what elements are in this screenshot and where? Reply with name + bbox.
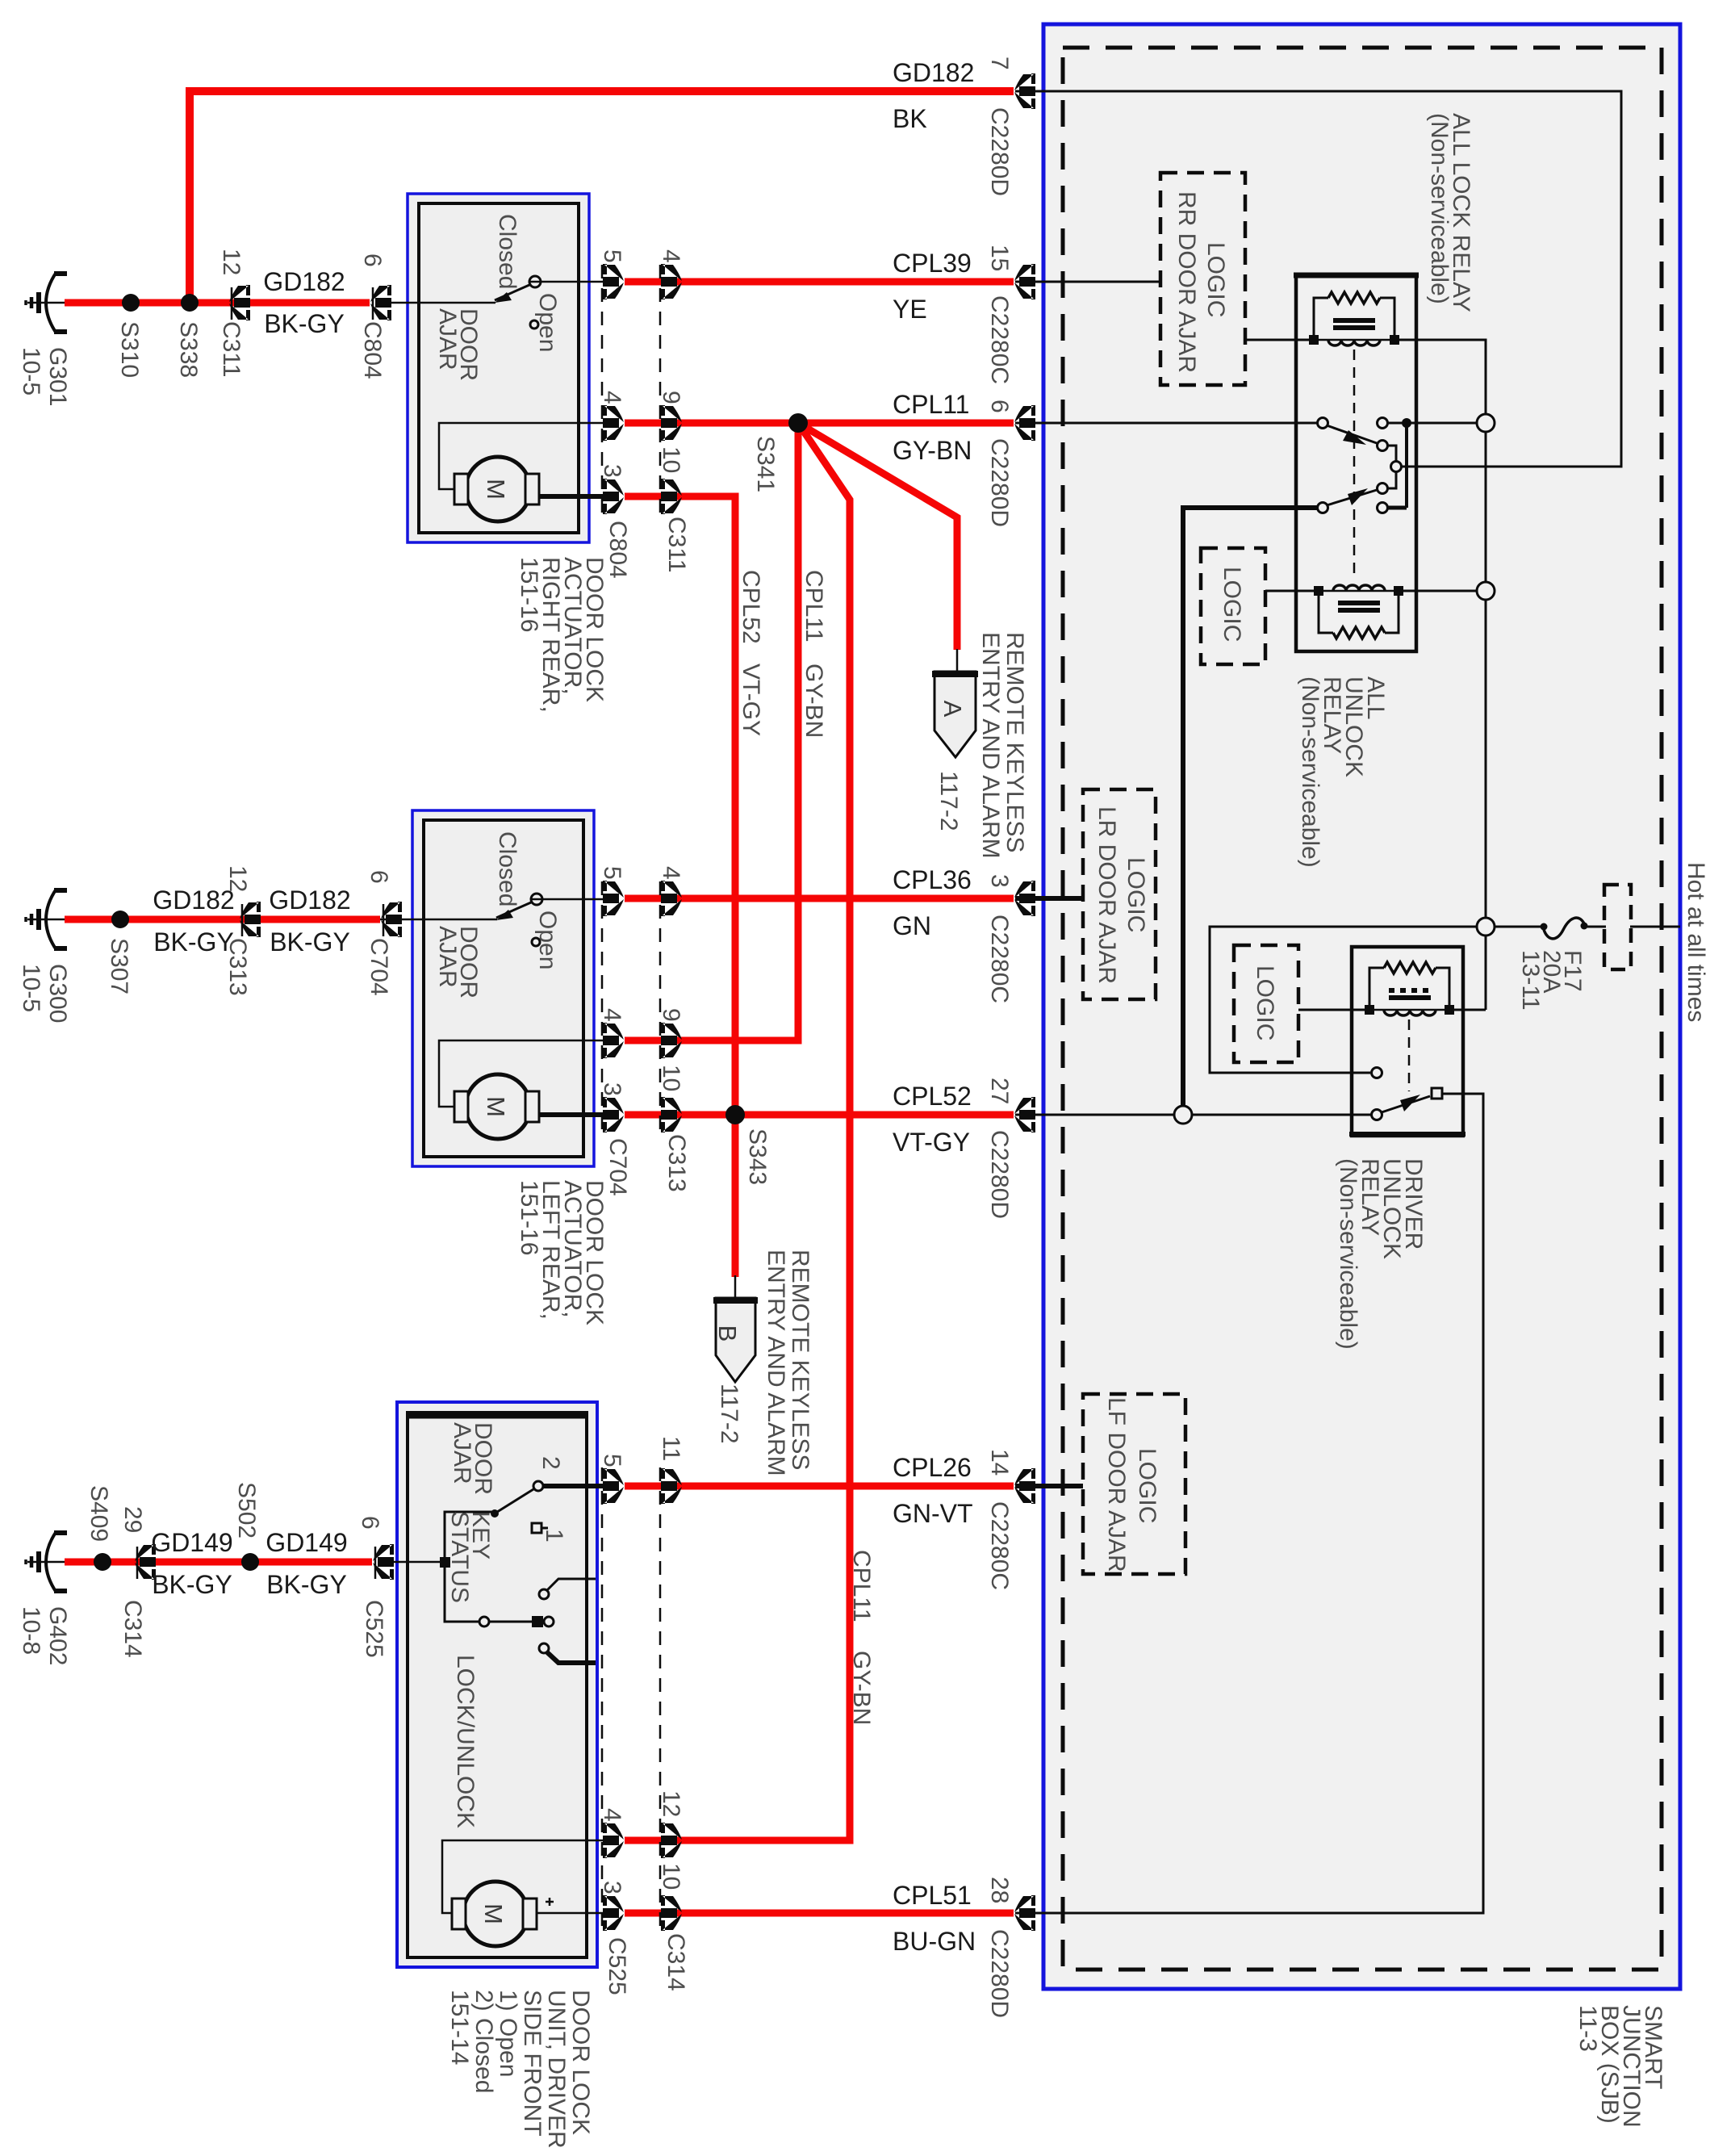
battery feed to driver-unlock NC contact <box>1210 927 1477 1073</box>
svg-text:4: 4 <box>658 249 684 263</box>
svg-text:BK-GY: BK-GY <box>270 927 350 957</box>
mechanical link dashed (driver unlock relay) <box>1408 1019 1411 1091</box>
svg-text:S307: S307 <box>106 938 132 994</box>
wire: pin27 to driver unlock common <box>1015 1114 1372 1116</box>
smart junction box (SJB) outline <box>1043 24 1680 1989</box>
LF motor M <box>463 1882 528 1946</box>
svg-text:Open: Open <box>534 911 561 969</box>
svg-text:GN-VT: GN-VT <box>893 1499 973 1528</box>
svg-text:151-16: 151-16 <box>516 557 542 632</box>
svg-text:C2280C: C2280C <box>986 1501 1013 1590</box>
svg-text:5: 5 <box>599 866 625 880</box>
wire: all-unlock coil right to battery bus <box>1399 590 1477 592</box>
C525 pin3 arrow <box>603 1895 624 1931</box>
connector arrows (right-pointing at component rows) <box>603 264 682 1931</box>
svg-text:S341: S341 <box>752 436 779 492</box>
C804 pin6 arrow <box>370 285 391 320</box>
svg-text:AJAR: AJAR <box>434 926 461 988</box>
svg-text:(Non-serviceable): (Non-serviceable) <box>1297 676 1323 868</box>
LF door ajar switch pin 1 contact <box>532 1523 541 1533</box>
svg-text:117-2: 117-2 <box>935 771 962 831</box>
KEY STATUS bracket <box>445 1512 495 1622</box>
splice S502 <box>241 1553 259 1571</box>
svg-text:S343: S343 <box>744 1128 771 1185</box>
svg-text:CPL11: CPL11 <box>893 390 969 419</box>
connector arrows (left-pointing at SJB edge and grounds) <box>135 73 1035 1931</box>
LF door ajar switch pin 2 contact <box>533 1481 543 1491</box>
C313 pin12 arrow <box>240 902 261 937</box>
wire CPL52 VT-GY: S343 to SJB pin 27 <box>735 1111 1014 1119</box>
LOGIC box (driver unlock relay) <box>1234 945 1298 1062</box>
svg-text:BK: BK <box>893 104 927 133</box>
svg-text:G300: G300 <box>44 964 71 1023</box>
relay contact vertical link E-F <box>1405 423 1408 508</box>
svg-text:C2280D: C2280D <box>986 438 1013 527</box>
svg-text:12: 12 <box>218 249 245 275</box>
svg-text:29: 29 <box>119 1506 146 1533</box>
svg-text:Closed: Closed <box>494 214 521 289</box>
wire CPL51 BU-GN: LF motor row to SJB pin 28 <box>625 1910 1014 1917</box>
svg-text:4: 4 <box>599 1808 625 1822</box>
C704 pin6 arrow <box>381 902 402 937</box>
svg-text:9: 9 <box>658 1008 684 1022</box>
wire CPL36 GN: LR switch row to SJB pin 3 <box>625 895 1014 902</box>
svg-text:CPL52: CPL52 <box>893 1082 972 1111</box>
svg-text:10-5: 10-5 <box>18 347 44 396</box>
C314 pin10 arrow <box>661 1895 682 1931</box>
wire: NO contact to pin 28 <box>1015 1094 1483 1913</box>
svg-text:S409: S409 <box>86 1485 112 1542</box>
svg-text:C525: C525 <box>604 1937 630 1995</box>
C311 pin12 arrow <box>229 285 250 320</box>
C704 pin5 arrow <box>603 881 624 916</box>
svg-text:GD149: GD149 <box>266 1528 347 1557</box>
door lock actuator left rear box <box>412 810 594 1166</box>
svg-text:CPL36: CPL36 <box>893 865 972 894</box>
driver unlock relay common contact <box>1372 1110 1382 1120</box>
svg-text:6: 6 <box>366 870 392 884</box>
relay contact arm A to B <box>1327 425 1377 443</box>
svg-text:Closed: Closed <box>494 831 521 906</box>
relay contact common A2 (to CPL52 bus) <box>1318 503 1328 513</box>
svg-text:(Non-serviceable): (Non-serviceable) <box>1335 1158 1361 1350</box>
svg-text:10-5: 10-5 <box>18 964 44 1012</box>
svg-text:CPL11: CPL11 <box>801 570 827 643</box>
relay contact B2 <box>1378 484 1388 494</box>
C2280C pin3 arrow <box>1014 881 1035 916</box>
C313 pin10 arrow <box>661 1097 682 1132</box>
svg-text:ENTRY AND ALARM: ENTRY AND ALARM <box>977 632 1004 859</box>
wire: all-lock coil right to battery bus <box>1394 340 1486 414</box>
RR motor circuit wires <box>439 423 611 489</box>
battery bus vertical inside SJB <box>1485 432 1487 582</box>
C525 pin4 arrow <box>603 1823 624 1858</box>
svg-text:BU-GN: BU-GN <box>893 1927 976 1956</box>
C313 pin9 arrow <box>661 1023 682 1058</box>
svg-text:12: 12 <box>224 865 251 892</box>
svg-text:C525: C525 <box>361 1600 387 1658</box>
C2280D pin27 arrow <box>1014 1097 1035 1132</box>
relay contact middle common C to pin7 feed <box>1387 446 1396 488</box>
svg-text:10: 10 <box>658 1065 684 1091</box>
ground G402 <box>26 1531 67 1593</box>
wire: LOGIC to driver-unlock coil <box>1298 1009 1369 1011</box>
svg-text:BK-GY: BK-GY <box>266 1570 347 1599</box>
wire CPL11 branch: S341 diagonal to LF feed vertical <box>625 423 850 1840</box>
splice S310 <box>122 294 140 312</box>
C311 pin9 arrow <box>661 405 682 441</box>
wire CPL52 VT-GY: RR motor row down to S343 and B flag <box>625 496 735 1277</box>
svg-text:C2280D: C2280D <box>986 1130 1013 1219</box>
svg-text:M: M <box>482 479 510 500</box>
svg-text:6: 6 <box>359 253 386 267</box>
C311 pin10 arrow <box>661 479 682 514</box>
connector dashed lines C704/C313 columns (LR) <box>601 881 604 1134</box>
LOGIC RR DOOR AJAR box <box>1160 173 1245 385</box>
door lock unit driver side front box <box>397 1402 597 1967</box>
svg-text:LF DOOR AJAR: LF DOOR AJAR <box>1103 1397 1130 1572</box>
LF door ajar switch arm <box>495 1489 533 1513</box>
wire GD182 BK: S338 up and right to SJB pin 7 <box>190 91 1014 303</box>
C2280D pin28 arrow <box>1014 1895 1035 1931</box>
C314 pin12 arrow <box>661 1823 682 1858</box>
relay contact common A (from pin6) <box>1318 418 1328 429</box>
svg-text:GD182: GD182 <box>263 267 345 296</box>
svg-text:CPL51: CPL51 <box>893 1881 972 1910</box>
svg-text:BK-GY: BK-GY <box>153 927 234 957</box>
svg-text:S338: S338 <box>175 321 202 378</box>
svg-text:LR DOOR AJAR: LR DOOR AJAR <box>1093 806 1120 984</box>
svg-text:LOGIC: LOGIC <box>1134 1448 1160 1523</box>
svg-text:5: 5 <box>599 1454 625 1467</box>
svg-text:12: 12 <box>658 1790 684 1817</box>
svg-text:LOGIC: LOGIC <box>1252 965 1278 1040</box>
svg-text:3: 3 <box>599 1881 625 1894</box>
WIRE-START <box>65 91 1014 1913</box>
svg-text:10: 10 <box>658 1863 684 1890</box>
mechanical link dashed (all lock/unlock relay) <box>1353 350 1356 578</box>
svg-text:(Non-serviceable): (Non-serviceable) <box>1426 113 1453 304</box>
svg-text:G402: G402 <box>44 1606 71 1665</box>
RR motor M <box>466 457 530 521</box>
svg-text:STATUS: STATUS <box>446 1511 473 1603</box>
svg-text:M: M <box>479 1903 508 1924</box>
driver unlock relay NO contact <box>1432 1088 1442 1099</box>
svg-text:M: M <box>482 1096 510 1117</box>
svg-text:C313: C313 <box>224 938 251 996</box>
svg-text:10-8: 10-8 <box>18 1606 44 1655</box>
svg-text:LOGIC: LOGIC <box>1219 567 1245 642</box>
thick wire from A2 down to CPL52 line <box>1183 508 1318 1105</box>
svg-text:1) Open: 1) Open <box>495 1990 521 2077</box>
relay box: ALL LOCK / ALL UNLOCK relay <box>1296 275 1416 651</box>
svg-text:LOGIC: LOGIC <box>1123 857 1149 932</box>
svg-text:3: 3 <box>599 464 625 478</box>
svg-text:151-16: 151-16 <box>516 1180 542 1255</box>
driver unlock relay arm to NO contact <box>1382 1096 1430 1112</box>
wire CPL39 YE: RR switch row to SJB pin 15 <box>625 278 1014 286</box>
svg-text:27: 27 <box>986 1078 1013 1104</box>
C804 pin4 arrow <box>603 405 624 441</box>
all-unlock relay coil (inductor, capacitor, resistor) <box>1319 585 1399 638</box>
svg-text:C313: C313 <box>663 1134 690 1192</box>
C525 pin6 arrow <box>373 1544 394 1580</box>
C2280D pin7 arrow <box>1014 73 1035 109</box>
wire: pin15 to LOGIC RR box <box>1015 281 1160 283</box>
LF motor polarity mark <box>546 1898 554 1906</box>
connector flag A to remote keyless entry <box>956 649 959 673</box>
wire: LOGIC RR to all-lock coil <box>1245 339 1314 341</box>
RR switch output line (pin 5) <box>530 281 611 283</box>
connector dashed lines C804/C311 columns (RR) <box>601 265 604 517</box>
svg-text:GY-BN: GY-BN <box>801 664 827 738</box>
svg-text:B: B <box>713 1325 742 1342</box>
LOGIC box (all unlock relay) <box>1201 548 1265 664</box>
wire GD149 BK-GY: ground G402 to C525 (LF ground row) <box>65 1559 372 1566</box>
C2280C pin14 arrow <box>1014 1468 1035 1504</box>
svg-text:11-3: 11-3 <box>1574 2005 1601 2052</box>
splice S343 <box>725 1105 745 1124</box>
wire: pin7 internal to relay contact <box>1015 91 1621 467</box>
RR door ajar switch <box>529 276 541 287</box>
svg-text:AJAR: AJAR <box>434 308 461 370</box>
svg-text:3: 3 <box>986 874 1013 888</box>
connector ticks on ground rows <box>137 287 383 1579</box>
svg-text:2: 2 <box>537 1456 564 1470</box>
C2280C pin15 arrow <box>1014 264 1035 299</box>
svg-text:DOOR LOCK: DOOR LOCK <box>567 1990 594 2135</box>
relay box: DRIVER UNLOCK relay <box>1352 947 1463 1136</box>
all-lock relay coil (resistor, capacitor, inductor) <box>1314 292 1394 345</box>
C314 pin29 arrow <box>135 1544 156 1580</box>
LR motor circuit wires <box>439 1040 611 1107</box>
svg-text:14: 14 <box>986 1449 1013 1476</box>
wire C525 pin6 into key status <box>378 1561 441 1564</box>
svg-text:GY-BN: GY-BN <box>848 1651 875 1725</box>
svg-text:GD182: GD182 <box>153 885 234 915</box>
battery bus terminal circles <box>1477 414 1495 432</box>
ground G300 <box>26 889 67 950</box>
svg-text:CPL11: CPL11 <box>848 1550 875 1622</box>
lock/unlock switch lower contact <box>539 1643 549 1653</box>
svg-text:Hot at all times: Hot at all times <box>1683 862 1709 1022</box>
C311 pin4 arrow <box>661 264 682 299</box>
svg-text:GD149: GD149 <box>151 1528 232 1557</box>
svg-text:BK-GY: BK-GY <box>264 309 345 338</box>
LR switch line to C704 pin6 <box>380 919 497 921</box>
svg-text:GD182: GD182 <box>893 58 974 87</box>
svg-text:6: 6 <box>357 1516 383 1530</box>
svg-text:UNIT, DRIVER: UNIT, DRIVER <box>543 1990 570 2149</box>
svg-text:C2280C: C2280C <box>986 915 1013 1003</box>
splice S409 <box>94 1553 111 1571</box>
svg-text:C2280D: C2280D <box>986 1929 1013 2018</box>
svg-text:4: 4 <box>658 866 684 880</box>
splice S307 <box>111 911 129 928</box>
svg-text:11: 11 <box>658 1436 684 1461</box>
C313 pin4 arrow <box>661 881 682 916</box>
svg-text:VT-GY: VT-GY <box>893 1128 970 1157</box>
svg-text:G301: G301 <box>44 347 71 406</box>
splice S341 <box>788 413 808 433</box>
svg-text:7: 7 <box>986 57 1013 70</box>
C314 pin11 arrow <box>661 1468 682 1504</box>
wire CPL11 GY-BN: RR motor row through S341 to SJB pin 6 <box>625 420 1014 427</box>
LOGIC LF DOOR AJAR box <box>1083 1394 1185 1574</box>
svg-text:AJAR: AJAR <box>449 1422 475 1484</box>
ground G301 <box>26 272 67 333</box>
fuse dashed holder box <box>1604 885 1631 969</box>
C804 pin3 arrow <box>603 479 624 514</box>
LR switch output line (pin 5) <box>532 898 611 901</box>
lock/unlock switch middle contact pair <box>489 1621 534 1623</box>
svg-text:15: 15 <box>986 245 1013 271</box>
svg-text:13-11: 13-11 <box>1517 950 1544 1011</box>
C525 pin5 arrow <box>603 1468 624 1504</box>
splice S338 <box>181 294 199 312</box>
svg-text:LOCK/UNLOCK: LOCK/UNLOCK <box>452 1655 479 1828</box>
svg-text:LOGIC: LOGIC <box>1202 242 1229 317</box>
wire GD182 BK-GY: ground G301 to C804 (RR ground row) <box>65 299 370 307</box>
wire: pin14 to LOGIC LF box <box>1015 1484 1083 1488</box>
svg-text:VT-GY: VT-GY <box>738 664 764 736</box>
fuse F17 feed line and symbol <box>1495 926 1543 928</box>
wire GD182 BK-GY: ground G300 to C704 (LR ground row) <box>65 916 380 923</box>
wire: driver-unlock coil right to battery bus <box>1449 1009 1486 1011</box>
svg-text:3: 3 <box>599 1082 625 1096</box>
connector flag B to remote keyless entry <box>734 1275 737 1300</box>
svg-text:2) Closed: 2) Closed <box>470 1990 497 2093</box>
svg-text:117-2: 117-2 <box>716 1384 742 1444</box>
RR switch line to C804 pin6 <box>376 302 495 304</box>
svg-text:SIDE FRONT: SIDE FRONT <box>519 1990 546 2137</box>
junction circle CPL52/relay feed <box>1174 1106 1192 1124</box>
relay contact D and E junction <box>1378 418 1388 429</box>
svg-text:5: 5 <box>599 249 625 263</box>
svg-text:Open: Open <box>534 293 561 352</box>
svg-text:REMOTE KEYLESS: REMOTE KEYLESS <box>787 1250 813 1470</box>
LF motor circuit wires <box>442 1840 611 1913</box>
LOGIC to all-unlock coil wire <box>1265 590 1319 592</box>
svg-text:C704: C704 <box>366 938 392 996</box>
svg-text:C804: C804 <box>359 321 386 379</box>
C704 pin4 arrow <box>603 1023 624 1058</box>
svg-text:ENTRY AND ALARM: ENTRY AND ALARM <box>763 1250 789 1476</box>
C804 pin5 arrow <box>603 264 624 299</box>
LR door ajar switch <box>531 894 542 905</box>
svg-text:GN: GN <box>893 911 931 940</box>
svg-text:RR DOOR AJAR: RR DOOR AJAR <box>1173 191 1200 373</box>
relay contact arm A2 to B2 <box>1327 490 1377 505</box>
svg-text:C314: C314 <box>119 1600 146 1658</box>
wire CPL11 branch: S341 down to LR motor + row <box>625 423 798 1040</box>
svg-text:CPL52: CPL52 <box>738 570 764 644</box>
svg-text:A: A <box>939 701 967 718</box>
svg-text:S502: S502 <box>233 1482 260 1539</box>
svg-text:6: 6 <box>986 400 1013 413</box>
svg-text:10: 10 <box>658 446 684 473</box>
svg-text:4: 4 <box>599 1008 625 1022</box>
svg-text:9: 9 <box>658 391 684 404</box>
svg-text:CPL26: CPL26 <box>893 1453 972 1482</box>
svg-text:C311: C311 <box>663 517 690 573</box>
svg-text:4: 4 <box>599 391 625 404</box>
svg-text:C2280C: C2280C <box>986 295 1013 384</box>
lock/unlock switch upper contact <box>539 1589 549 1599</box>
svg-text:C2280D: C2280D <box>986 107 1013 196</box>
relay contact B <box>1378 441 1388 451</box>
svg-text:1: 1 <box>541 1529 567 1543</box>
connector dashed lines C525/C314 columns (LF) <box>601 1467 604 1932</box>
LOGIC LR DOOR AJAR box <box>1083 789 1156 999</box>
wire CPL26 GN-VT: LF switch row to SJB pin 14 <box>625 1483 1014 1490</box>
wire: pin3 to LOGIC LR box <box>1015 896 1083 901</box>
svg-text:YE: YE <box>893 295 927 324</box>
wire CPL51 red stub row LR motor <box>625 1111 735 1119</box>
relay contact F <box>1378 503 1388 513</box>
svg-text:GY-BN: GY-BN <box>893 436 972 465</box>
door lock actuator right rear box <box>408 194 589 542</box>
svg-text:C311: C311 <box>218 321 245 378</box>
svg-text:GD182: GD182 <box>269 885 350 915</box>
driver unlock relay NC contact <box>1372 1068 1382 1078</box>
C704 pin3 arrow <box>603 1097 624 1132</box>
wire: pin6 to relay common A <box>1015 422 1318 425</box>
svg-text:BK-GY: BK-GY <box>152 1570 232 1599</box>
svg-text:REMOTE KEYLESS: REMOTE KEYLESS <box>1001 632 1028 852</box>
C2280D pin6 arrow <box>1014 405 1035 441</box>
svg-text:C314: C314 <box>663 1933 689 1991</box>
wire CPL11 branch: S341 diagonal to A flag <box>798 423 957 650</box>
svg-text:S310: S310 <box>116 321 143 378</box>
SJB inner dashed border <box>1063 48 1662 1970</box>
svg-text:151-14: 151-14 <box>446 1990 473 2065</box>
svg-text:28: 28 <box>986 1877 1013 1903</box>
svg-text:CPL39: CPL39 <box>893 249 972 278</box>
driver-unlock relay coil <box>1369 962 1449 1015</box>
LR motor M <box>466 1074 530 1139</box>
